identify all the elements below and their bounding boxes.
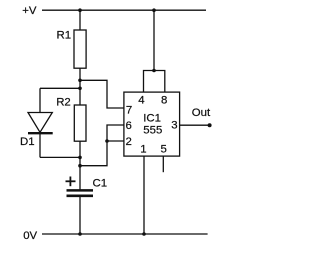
wire node to IC pins 6 and 2 [80, 125, 124, 166]
svg-text:D1: D1 [20, 136, 35, 148]
junction pin2/pin6 net [105, 139, 109, 143]
junction bracket [152, 69, 156, 73]
junction top rail / R1 [78, 8, 82, 12]
svg-text:8: 8 [161, 94, 167, 106]
diode D1 [20, 113, 53, 149]
wire IC pin 1 to 0V rail [143, 156, 145, 234]
junction top rail / IC supply [152, 8, 156, 12]
wire R1 bottom to R2 top [79, 68, 81, 105]
junction R1/R2 node to D1 [78, 87, 82, 91]
svg-text:4: 4 [138, 94, 144, 106]
svg-text:3: 3 [171, 120, 177, 132]
resistor R1 [57, 30, 87, 69]
wire 0V bottom rail [42, 233, 208, 235]
wire bracket pins 4 and 8 [144, 71, 165, 93]
IC IC1 555 timer [124, 92, 180, 156]
resistor R2 [56, 97, 86, 142]
wire IC pin 5 stub [162, 156, 164, 172]
capacitor C1 [66, 177, 108, 196]
wire +V rail down to pins 4,8 bracket [153, 10, 155, 70]
svg-text:R2: R2 [56, 97, 71, 109]
wire D1 vertical [39, 88, 41, 157]
junction R1/R2 node to pin7 [78, 79, 82, 83]
junction 0V rail / pin 1 [142, 232, 146, 236]
wire IC pin 3 to output terminal [180, 124, 210, 126]
svg-text:+V: +V [22, 5, 37, 17]
wire +V rail to R1 top [79, 10, 81, 30]
wire D1 top branch [40, 87, 80, 89]
junction 0V rail / C1 [78, 232, 82, 236]
svg-text:555: 555 [143, 124, 162, 136]
wire C1 bottom to 0V rail [79, 197, 81, 234]
svg-text:0V: 0V [23, 230, 37, 242]
node output terminal [208, 123, 212, 127]
svg-text:1: 1 [140, 143, 146, 155]
svg-text:6: 6 [126, 120, 132, 132]
svg-text:C1: C1 [93, 177, 108, 189]
wire +V top rail [42, 9, 206, 11]
wire node to IC pin 7 [80, 80, 124, 108]
svg-text:7: 7 [126, 104, 132, 116]
wire R2 bottom to C1 top [79, 141, 81, 189]
svg-text:IC1: IC1 [143, 113, 161, 125]
svg-text:2: 2 [126, 136, 132, 148]
svg-text:Out: Out [192, 107, 211, 119]
wire pin 2 stub [107, 140, 124, 142]
junction R2/C1 node to D1 [78, 156, 82, 160]
junction R2/C1 node to pins 2,6 [78, 164, 82, 168]
svg-text:R1: R1 [57, 30, 72, 42]
svg-text:5: 5 [161, 143, 167, 155]
wire D1 bottom branch [40, 156, 80, 158]
